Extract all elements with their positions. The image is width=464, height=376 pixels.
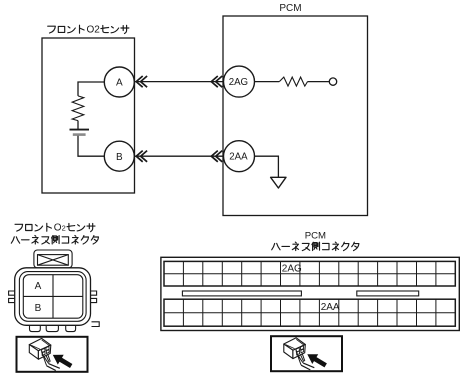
PCM connector upper cavity grid [164, 261, 455, 286]
svg-text:2AA: 2AA [321, 302, 340, 313]
right latch tab [92, 322, 100, 327]
PCM box [223, 16, 368, 216]
wire 2AG to resistor [255, 81, 280, 83]
sensor connector top tab [34, 250, 72, 268]
PCM connector outline [161, 257, 459, 330]
pin 2AA [224, 141, 255, 172]
svg-text:O2: O2 [87, 25, 101, 36]
chevrons at sensor end (wire B) [136, 151, 147, 162]
svg-text:PCM: PCM [305, 230, 326, 241]
svg-text:A: A [116, 78, 123, 89]
svg-text:O: O [54, 223, 62, 234]
pin 2AG [224, 66, 255, 97]
ground symbol [271, 177, 286, 188]
resistor (sensor element) [72, 96, 84, 121]
chevrons at PCM end (wire A) [211, 76, 222, 87]
wire A-2AG [135, 81, 224, 83]
PCM connector lower cavity grid [164, 299, 455, 326]
label front O2 sensor (top) [48, 25, 129, 36]
svg-text:B: B [35, 303, 42, 314]
view icon connector sketch (sensor) [29, 338, 72, 370]
view icon frame (PCM) [271, 336, 342, 371]
pull-up resistor in PCM [279, 77, 307, 86]
side lock tabs [9, 291, 97, 303]
svg-text:2AG: 2AG [282, 264, 302, 275]
sensor connector body [15, 268, 91, 326]
label PCM harness-side connector [272, 242, 359, 251]
terminal B [104, 141, 134, 171]
svg-text:A: A [35, 281, 42, 292]
label front O2 sensor harness-side connector [11, 223, 98, 244]
wire resistor to battery [77, 121, 79, 129]
wire 2AA to ground [255, 156, 279, 177]
wire resistor to supply [308, 81, 330, 83]
front O2 sensor box [42, 38, 135, 193]
svg-text:PCM: PCM [279, 3, 301, 14]
svg-text:2AG: 2AG [229, 77, 248, 88]
chevrons at PCM end (wire B) [211, 151, 222, 162]
terminal A [104, 67, 134, 97]
keying slot 2 [357, 291, 419, 296]
view icon connector sketch (PCM) [284, 338, 327, 370]
sensor connector cavity grid [23, 275, 83, 319]
battery cell [70, 130, 90, 135]
wire battery to B [78, 136, 104, 156]
keying slot 1 [182, 291, 301, 296]
svg-text:2: 2 [62, 224, 66, 233]
bottom index tabs [30, 325, 76, 331]
supply terminal circle [329, 78, 336, 85]
wire B-2AA [135, 155, 224, 157]
svg-text:2AA: 2AA [229, 152, 248, 163]
wire A to resistor [78, 82, 104, 96]
view icon frame (sensor) [17, 337, 88, 372]
svg-text:B: B [116, 152, 123, 163]
chevrons at sensor end (wire A) [136, 76, 147, 87]
